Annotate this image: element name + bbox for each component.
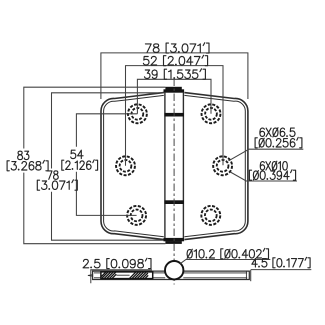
hinge leaf outline outer [101, 93, 248, 240]
hole right-bottom [201, 206, 220, 225]
dim 78 left lower segment and bottom extension [52, 192, 164, 240]
dim 83 left lower segment and bottom extension [24, 173, 166, 244]
dim text 52 top [143, 55, 207, 65]
dim 78 top line and extensions [101, 53, 248, 99]
hole left-bottom [127, 206, 146, 225]
hole right-middle [213, 156, 232, 175]
hole left-top [128, 104, 147, 123]
dim 54 left lower segment and bottom extension [76, 172, 136, 216]
dim text 78 top [145, 43, 209, 53]
dim text 78 left [48, 171, 59, 179]
dim 39 top line and extensions [137, 79, 211, 114]
dim 54 left upper segment and top extension [76, 114, 137, 147]
dim 4.5 drop extension [250, 270, 252, 282]
dim text 83 left [18, 151, 29, 159]
hatch patch left [101, 272, 116, 278]
dim 78 left upper segment and top extension [52, 93, 164, 169]
side view left leaf tip [88, 275, 93, 277]
callout text 6xD10 [260, 161, 287, 170]
hatch patch right [130, 272, 149, 278]
side view strip inner lines [94, 271, 247, 279]
dim 52 top line and extensions [126, 66, 224, 166]
vertical center line dash-dot [173, 79, 175, 285]
barrel top cap [164, 87, 185, 93]
side view leaf strip outer outline [93, 271, 250, 279]
callout D10.2 leader [180, 260, 270, 264]
callout text 6xD6.5 inches [255, 137, 302, 147]
callout text D10.2 [187, 248, 268, 258]
dim text 78 left inches [37, 180, 77, 190]
barrel knuckle joint band lower [164, 200, 184, 204]
dim text 54 left [71, 150, 83, 158]
side view knuckle circle [165, 261, 183, 279]
callout 6xD6.5 leader [228, 149, 303, 161]
dim text 2.5 bottom [83, 258, 151, 268]
hinge leaf inner edge line [104, 95, 246, 236]
dim 2.5 bottom line and drop extension [91, 270, 152, 283]
dim 83 left upper segment and top extension [24, 87, 166, 148]
barrel left side [164, 93, 166, 239]
dim text 54 left inches [62, 160, 98, 170]
barrel right side [182, 93, 184, 239]
hole left-middle [116, 156, 135, 175]
barrel bottom cap [164, 238, 185, 244]
dim text 4.5 bottom [252, 257, 310, 267]
side view hatched leaf block [101, 272, 153, 279]
hole right-top [202, 104, 221, 123]
mid line between hatch patches [116, 274, 129, 276]
callout text 6xD6.5 [260, 128, 295, 137]
callout text 6xD10 inches [249, 170, 295, 180]
dim text 83 left inches [7, 160, 48, 170]
dim 4.5 bottom shelf line [251, 269, 311, 271]
barrel knuckle joint band upper [164, 113, 184, 117]
dim text 39 top [145, 69, 206, 79]
callout 6xD10 leader [230, 172, 297, 181]
